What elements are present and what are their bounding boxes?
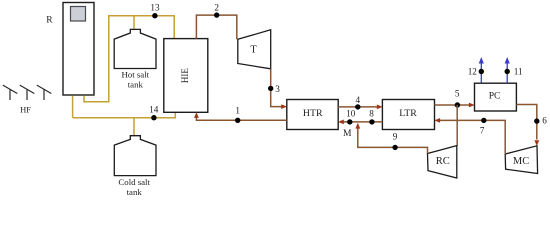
arrow up into HIE	[194, 112, 199, 118]
node 10	[347, 119, 352, 124]
cooling water arrow 12	[479, 57, 484, 83]
recuperator HTR	[287, 100, 338, 130]
heat exchanger HIE	[164, 39, 208, 113]
wire HTR cold out to HIE bottom	[196, 116, 286, 121]
svg-text:3: 3	[275, 84, 280, 94]
svg-text:12: 12	[468, 67, 478, 77]
main compressor MC	[505, 146, 537, 174]
wire LTR cold out to HTR cold in	[342, 121, 383, 123]
svg-text:1: 1	[235, 105, 240, 115]
turbine T	[238, 30, 271, 69]
wire salt cold return to R	[72, 96, 74, 118]
receiver R	[63, 3, 94, 96]
wire salt HIE bottom to cold tank and R	[73, 112, 176, 117]
svg-text:2: 2	[214, 2, 219, 12]
recompressor RC	[428, 146, 457, 178]
svg-text:4: 4	[356, 95, 361, 105]
svg-text:tank: tank	[127, 187, 143, 197]
svg-text:8: 8	[369, 109, 374, 119]
svg-text:Cold salt: Cold salt	[118, 177, 150, 187]
svg-text:PC: PC	[489, 90, 501, 101]
arrow into LTR cold side	[434, 118, 440, 123]
svg-text:14: 14	[149, 105, 159, 115]
svg-text:MC: MC	[513, 156, 529, 167]
svg-text:6: 6	[542, 115, 547, 125]
cold salt tank	[114, 136, 156, 176]
wire PC out to MC	[516, 105, 536, 140]
node 3	[268, 86, 273, 91]
heliostat field HF	[3, 85, 52, 100]
svg-text:HTR: HTR	[303, 108, 323, 119]
svg-text:HIE: HIE	[180, 68, 190, 83]
svg-text:13: 13	[150, 2, 160, 12]
svg-text:5: 5	[455, 89, 460, 99]
wire split node 5 down to RC	[456, 105, 458, 146]
svg-text:RC: RC	[436, 156, 450, 167]
svg-text:HF: HF	[20, 105, 31, 115]
node 9	[392, 145, 397, 150]
wire RC out to mixer M	[358, 127, 428, 154]
svg-text:T: T	[250, 44, 257, 55]
wire HTR to LTR hot	[338, 106, 379, 108]
wire stub to cold tank	[133, 118, 135, 136]
wire CO2 HIE top to turbine	[196, 15, 236, 39]
node 2	[214, 12, 219, 17]
wire LTR to PC	[435, 104, 472, 106]
svg-text:10: 10	[346, 109, 356, 119]
arrow into PC	[469, 103, 475, 108]
arrow up into M junction	[355, 123, 360, 129]
node 8	[369, 119, 374, 124]
node 5	[455, 102, 460, 107]
node 14	[151, 115, 156, 120]
arrow into HTR hot side	[281, 104, 287, 109]
wire stub to hot tank	[133, 16, 135, 30]
wire turbine out to HTR	[271, 69, 284, 107]
node 7	[481, 118, 486, 123]
svg-text:tank: tank	[128, 79, 144, 89]
precooler PC	[475, 83, 517, 111]
svg-text:9: 9	[393, 132, 398, 142]
arrow down into MC	[534, 140, 539, 146]
wire salt hot from R to HIE top	[84, 16, 174, 102]
hot salt tank	[114, 29, 156, 68]
svg-text:R: R	[46, 15, 53, 25]
svg-text:11: 11	[514, 67, 523, 77]
svg-text:M: M	[343, 128, 352, 139]
recuperator LTR	[382, 100, 434, 130]
node 4	[355, 104, 360, 109]
node 6	[534, 118, 539, 123]
arrow into LTR hot side	[377, 105, 383, 110]
node 13	[152, 13, 157, 18]
svg-text:Hot salt: Hot salt	[121, 69, 149, 79]
wire MC out to LTR cold side	[438, 120, 505, 154]
svg-text:LTR: LTR	[399, 108, 417, 119]
node 1	[235, 118, 240, 123]
arrow into HTR cold side	[338, 120, 344, 125]
cooling water arrow 11	[505, 57, 510, 83]
svg-text:7: 7	[480, 125, 485, 135]
